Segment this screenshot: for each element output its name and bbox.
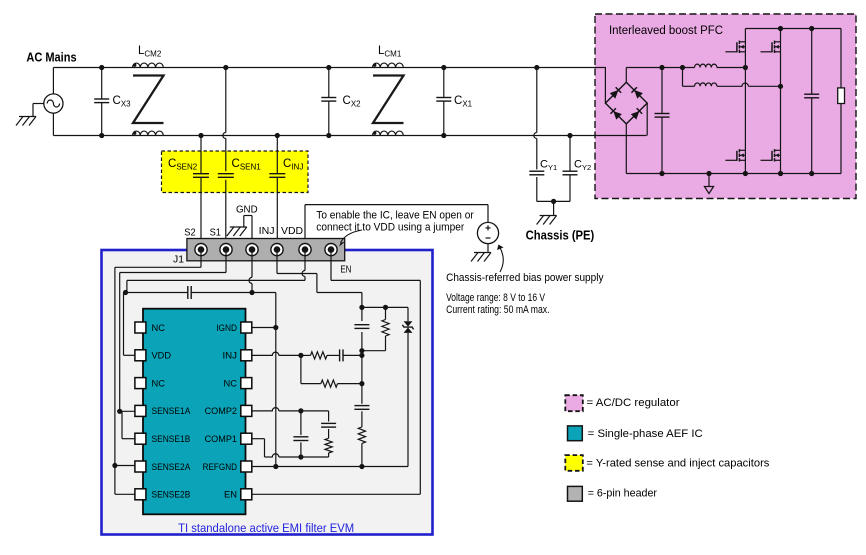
svg-text:connect it to VDD using a jump: connect it to VDD using a jumper bbox=[316, 222, 464, 234]
svg-text:NC: NC bbox=[152, 323, 166, 333]
svg-text:SENSE1B: SENSE1B bbox=[152, 434, 191, 444]
svg-text:COMP1: COMP1 bbox=[205, 434, 237, 444]
svg-text:Chassis-referred bias power su: Chassis-referred bias power supply bbox=[446, 272, 604, 284]
svg-text:Interleaved boost PFC: Interleaved boost PFC bbox=[609, 23, 723, 37]
svg-text:SENSE2A: SENSE2A bbox=[152, 462, 192, 472]
svg-text:NC: NC bbox=[152, 378, 166, 388]
svg-text:VDD: VDD bbox=[281, 226, 303, 237]
svg-text:EN: EN bbox=[340, 265, 351, 276]
svg-text:IGND: IGND bbox=[216, 323, 237, 333]
svg-text:To enable the IC, leave EN ope: To enable the IC, leave EN open or bbox=[316, 210, 474, 222]
svg-text:= Single-phase AEF IC: = Single-phase AEF IC bbox=[588, 428, 703, 440]
svg-text:EN: EN bbox=[224, 490, 237, 500]
svg-text:J1: J1 bbox=[173, 254, 184, 265]
svg-text:INJ: INJ bbox=[223, 351, 238, 361]
svg-text:Current rating: 50 mA max.: Current rating: 50 mA max. bbox=[446, 304, 549, 316]
svg-text:NC: NC bbox=[224, 378, 238, 388]
svg-text:= Y-rated sense and inject cap: = Y-rated sense and inject capacitors bbox=[586, 457, 770, 469]
svg-text:VDD: VDD bbox=[152, 351, 172, 361]
svg-text:REFGND: REFGND bbox=[203, 462, 238, 472]
svg-text:COMP2: COMP2 bbox=[205, 406, 237, 416]
svg-text:SENSE2B: SENSE2B bbox=[152, 490, 191, 500]
svg-text:= 6-pin header: = 6-pin header bbox=[588, 487, 658, 499]
svg-text:INJ: INJ bbox=[259, 226, 275, 237]
svg-text:TI standalone active EMI filte: TI standalone active EMI filter EVM bbox=[178, 521, 354, 535]
svg-text:S1: S1 bbox=[210, 228, 222, 239]
svg-text:AC Mains: AC Mains bbox=[26, 50, 76, 64]
svg-text:GND: GND bbox=[236, 204, 258, 215]
svg-text:SENSE1A: SENSE1A bbox=[152, 406, 192, 416]
svg-text:Voltage range: 8 V to 16 V: Voltage range: 8 V to 16 V bbox=[446, 292, 546, 304]
svg-text:Chassis (PE): Chassis (PE) bbox=[526, 229, 595, 243]
svg-text:S2: S2 bbox=[184, 228, 196, 239]
svg-text:= AC/DC regulator: = AC/DC regulator bbox=[587, 397, 680, 409]
